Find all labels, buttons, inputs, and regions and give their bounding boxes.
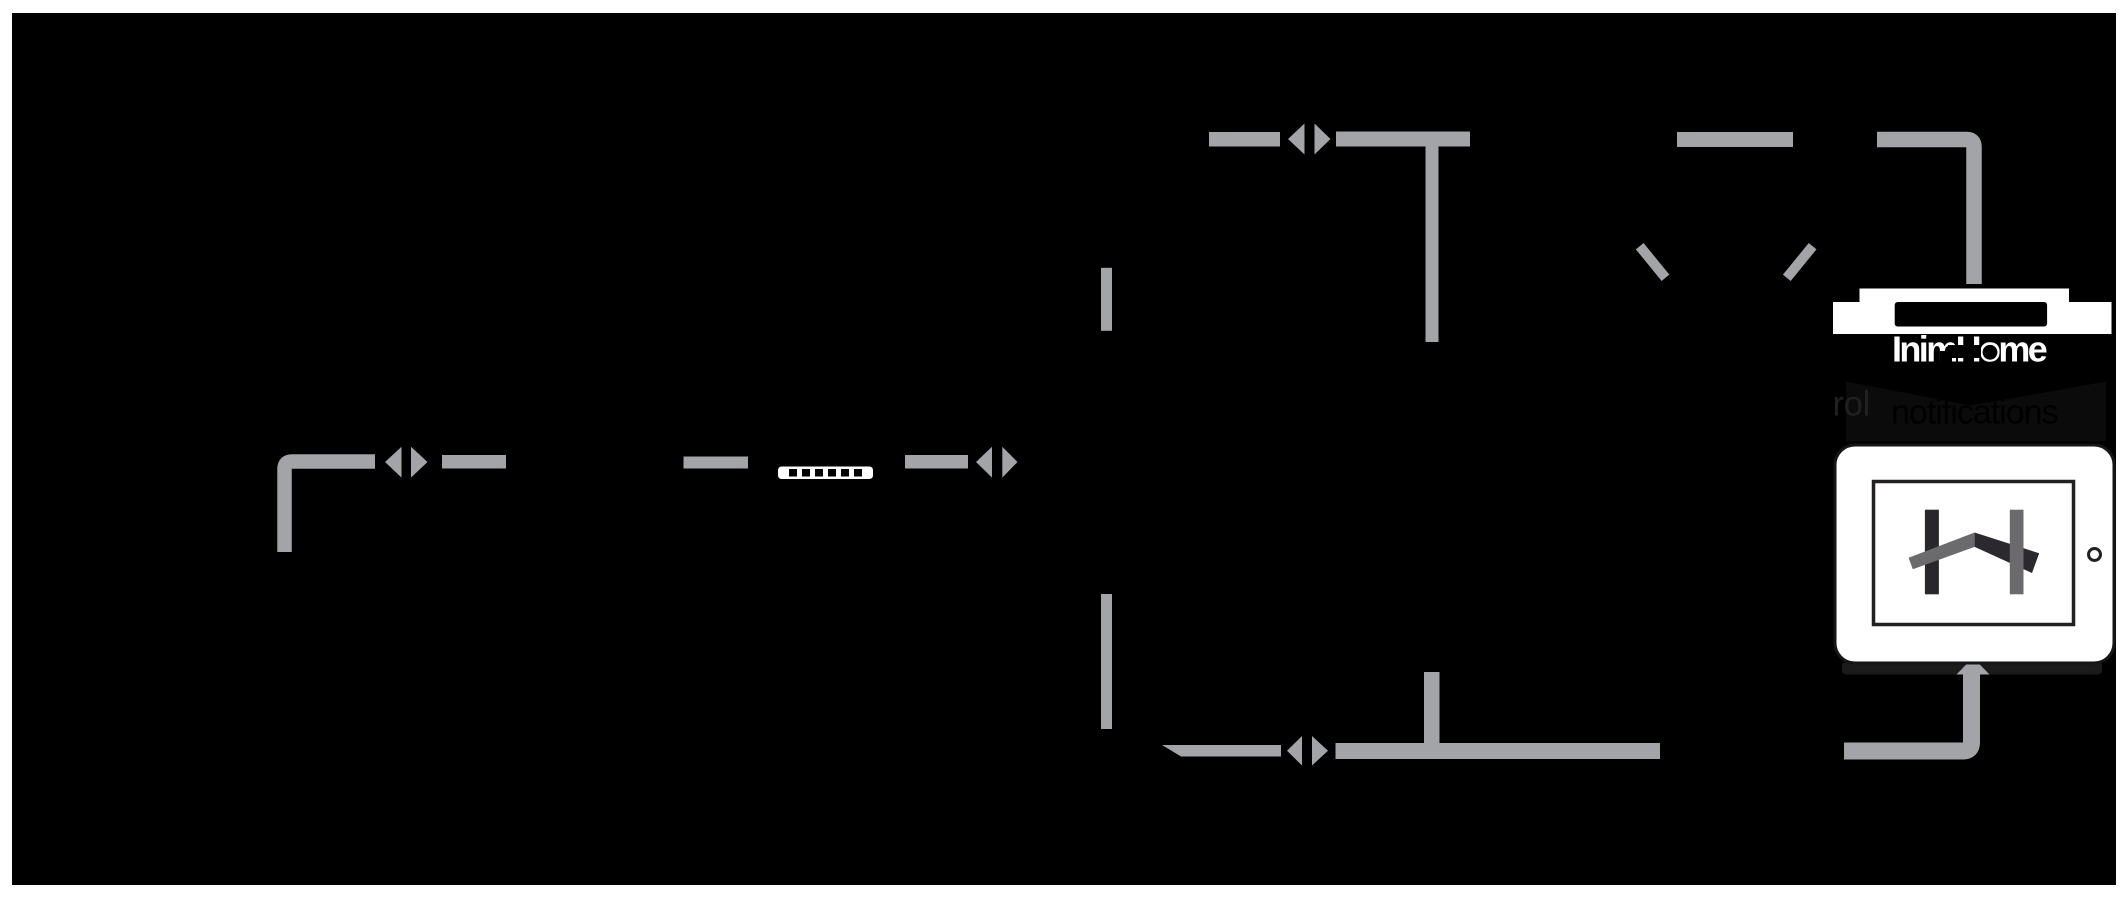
arrow A3 left-right bbox=[1288, 124, 1331, 155]
wire W6 top segment with junction bbox=[1336, 132, 1470, 147]
server top tray bbox=[1860, 289, 2070, 303]
wire W1: L-bend from control panel bbox=[285, 462, 376, 553]
wire W3 segment bbox=[684, 457, 749, 469]
wire W6 T-drop vertical bbox=[1426, 147, 1439, 343]
router antenna stub upper bbox=[1101, 268, 1112, 331]
server body bbox=[1833, 302, 2112, 334]
bus cable dashed strip bbox=[778, 467, 873, 480]
wire W2 segment bbox=[442, 455, 506, 469]
logo roof light segment bbox=[1909, 533, 1975, 570]
signal diagonal right bbox=[1787, 246, 1813, 278]
signal diagonal left bbox=[1640, 246, 1666, 278]
logo roof dark segment bbox=[1975, 533, 2040, 574]
wire W8: corner bend down to cloud server bbox=[1877, 140, 1974, 285]
server dark slot bbox=[1895, 302, 2047, 327]
router antenna stub lower bbox=[1101, 594, 1112, 729]
logo left dark bar bbox=[1925, 510, 1939, 595]
wire W11 bottom long segment bbox=[1336, 743, 1661, 759]
tablet screen bbox=[1874, 482, 2074, 625]
svg-text:notifications: notifications bbox=[1891, 394, 2058, 432]
wire W4 segment bbox=[905, 455, 968, 469]
wire W11 T-stub vertical bbox=[1424, 672, 1440, 745]
logo right gray bar bbox=[2010, 510, 2024, 595]
wire W7 top right segment bbox=[1677, 132, 1793, 147]
envelope bbox=[1846, 382, 2106, 442]
tablet body bbox=[1835, 445, 2114, 663]
black overlap text damage bbox=[1940, 345, 1997, 362]
wire W10 bottom beveled segment bbox=[1162, 745, 1281, 757]
arrow head up into tablet bbox=[1957, 658, 1990, 675]
arrow A1 left-right bbox=[385, 447, 428, 478]
wire W12: corner bend up to tablet bbox=[1844, 672, 1972, 751]
wire W5 top segment bbox=[1209, 132, 1280, 147]
tablet under band bbox=[1842, 662, 2102, 675]
arrow A2 left-right bbox=[976, 447, 1018, 478]
svg-text:rol: rol bbox=[1833, 385, 1870, 424]
arrow A4 left-right bbox=[1287, 736, 1328, 766]
tablet camera bbox=[2089, 549, 2101, 561]
